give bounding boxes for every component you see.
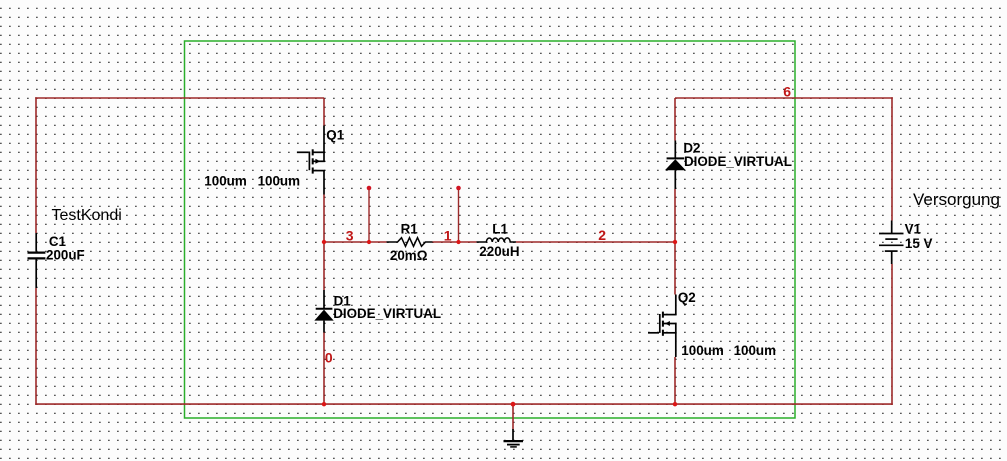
probe dot node 3 [367, 186, 372, 191]
svg-text:100um: 100um [204, 173, 247, 188]
capacitor C1 [28, 233, 46, 288]
label R1 value 20m&#937; [390, 248, 428, 263]
wire top rail to D2 cathode [674, 98, 676, 141]
junction D1 bottom rail [322, 402, 326, 406]
svg-text:Q2: Q2 [678, 290, 696, 305]
svg-text:L1: L1 [492, 222, 508, 237]
label D2 [683, 140, 700, 155]
ground [504, 429, 524, 447]
svg-text:Q1: Q1 [326, 127, 344, 142]
transistor Q1 [297, 126, 325, 195]
svg-text:15 V: 15 V [905, 236, 933, 251]
wire Q1 source to node 3 [323, 195, 325, 243]
wire left vertical upper [35, 97, 37, 233]
wire ground stub [512, 404, 514, 429]
junction ground bottom rail [511, 402, 516, 407]
probe dot node 1 [456, 186, 461, 191]
selection box (green) [185, 41, 796, 418]
junction Q2 bottom rail [673, 402, 677, 406]
svg-text:TestKondi: TestKondi [52, 207, 122, 224]
svg-text:Versorgung: Versorgung [913, 190, 1000, 209]
svg-text:100um: 100um [258, 173, 301, 188]
label D1 model DIODE_VIRTUAL [333, 306, 441, 321]
wire R1 to L1 [433, 241, 477, 243]
wire L1 to node 2 column [516, 241, 675, 243]
junction node 3 at Q1/D1/R1 [322, 240, 326, 244]
svg-text:V1: V1 [905, 221, 922, 236]
svg-text:2: 2 [598, 227, 606, 243]
label Q2 value 100um 100um [681, 343, 776, 358]
label V1 [905, 221, 922, 236]
wire node 2 down to Q2 drain [674, 242, 676, 295]
junction probe base node 1 [456, 240, 460, 244]
wire node 3 down to D1 [323, 242, 325, 290]
label L1 [492, 222, 508, 237]
label Versorgung [913, 190, 1000, 209]
svg-text:R1: R1 [401, 222, 419, 237]
diode D2 [665, 141, 686, 190]
transistor Q2 [648, 295, 677, 358]
wire D2 anode to node 2 [674, 189, 676, 242]
svg-text:100um: 100um [734, 343, 777, 358]
node 3 [346, 227, 354, 243]
svg-text:20mΩ: 20mΩ [390, 248, 428, 263]
node 2 [598, 227, 606, 243]
junction node 2 at D2/Q2 [673, 240, 677, 244]
resistor R1 [387, 238, 433, 247]
inductor L1 [477, 238, 517, 242]
wire probe stub node 3 [368, 189, 370, 243]
svg-text:0: 0 [325, 349, 333, 365]
wire right vertical lower [891, 264, 893, 405]
diode D1 [314, 290, 333, 333]
svg-text:DIODE_VIRTUAL: DIODE_VIRTUAL [684, 154, 792, 169]
junction probe base node 3 [367, 240, 371, 244]
wire right vertical upper [891, 97, 893, 220]
wire left vertical lower [35, 288, 37, 405]
label Q1 [326, 127, 344, 142]
svg-text:220uH: 220uH [479, 244, 519, 259]
wire Q2 source to bottom rail [674, 357, 676, 405]
label C1 value 200uF [46, 248, 85, 263]
svg-text:3: 3 [346, 227, 354, 243]
label C1 [49, 234, 67, 249]
label Q2 [678, 290, 696, 305]
label V1 value 15 V [905, 236, 933, 251]
svg-text:D2: D2 [683, 140, 700, 155]
wire D1 anode to bottom rail [323, 332, 325, 405]
wire Q1 drain from top rail [323, 98, 325, 126]
label R1 [401, 222, 419, 237]
svg-text:200uF: 200uF [46, 248, 85, 263]
node 0 [325, 349, 333, 365]
node 1 [444, 227, 452, 243]
label TestKondi [52, 207, 122, 224]
wire top-right horizontal [675, 97, 893, 99]
svg-text:6: 6 [783, 84, 791, 100]
wire node 3 to R1 [324, 241, 387, 243]
label Q1 value 100um 100um [204, 173, 300, 188]
label L1 value 220uH [479, 244, 519, 259]
node 6 [783, 84, 791, 100]
source V1 battery [879, 221, 904, 265]
wire bottom horizontal [35, 403, 893, 405]
svg-text:1: 1 [444, 227, 452, 243]
wire probe stub node 1 [458, 189, 460, 243]
label D1 [334, 294, 352, 309]
svg-text:100um: 100um [681, 343, 724, 358]
label D2 model DIODE_VIRTUAL [684, 154, 792, 169]
svg-text:DIODE_VIRTUAL: DIODE_VIRTUAL [333, 306, 441, 321]
wire top-left horizontal [35, 97, 324, 99]
